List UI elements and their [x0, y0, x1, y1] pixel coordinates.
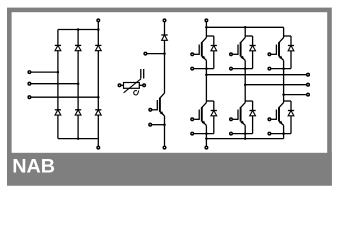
Q3 aux emitter wire — [271, 68, 291, 70]
wire aux emitter — [152, 124, 165, 126]
rectifier top diode D1 — [55, 45, 61, 50]
junction Q5 emitter — [244, 132, 247, 135]
inverter diode D5 — [250, 111, 256, 116]
AC input wire 1 — [31, 71, 58, 73]
IGBT Q3 body bar — [278, 42, 280, 56]
IGBT Q3 gate bar — [275, 45, 277, 55]
inverter diode D6 wire — [290, 101, 292, 134]
thermistor diagonal stroke — [124, 79, 141, 93]
IGBT Q4 gate bar — [198, 110, 200, 120]
IGBT Q1 gate wire — [194, 53, 199, 55]
phase 1 output terminal — [307, 73, 310, 76]
junction brake emitter — [163, 123, 166, 126]
inverter diode D3 — [288, 46, 294, 51]
brake aux emitter terminal — [149, 123, 152, 126]
AC input wire 3 — [31, 96, 99, 98]
inverter diode D1 wire — [213, 36, 215, 69]
brake bottom terminal — [163, 146, 166, 149]
Q1 aux emitter wire — [194, 68, 214, 70]
IGBT Q3 gate wire — [271, 53, 276, 55]
wire Q6 to bottom rail — [283, 134, 285, 139]
Q2 aux emitter wire — [233, 68, 253, 70]
wire rail to Q3 — [283, 27, 285, 37]
brake IGBT gate bar — [156, 100, 158, 110]
phase 2 midpoint wire — [244, 69, 246, 103]
junction phase 1 — [205, 73, 208, 76]
wire Q5 to bottom rail — [244, 134, 246, 139]
wire branch to D6 top — [284, 100, 291, 102]
thermistor sense lead 1 — [140, 69, 142, 79]
junction bottom rail cell5 — [244, 137, 247, 140]
junction bottom rail leg2 — [77, 137, 80, 140]
inverter DC+ terminal — [205, 19, 208, 22]
IGBT Q6 gate wire — [271, 118, 276, 120]
IGBT Q5 gate terminal — [230, 118, 233, 121]
inverter top rail — [206, 26, 283, 28]
inverter diode D2 wire — [252, 36, 254, 69]
wire branch to D3 top — [284, 35, 291, 37]
inverter bottom rail — [206, 138, 283, 140]
IGBT Q1 body bar — [201, 42, 203, 56]
AC input terminal 1 — [28, 71, 31, 74]
rectifier top diode D3 — [95, 45, 101, 50]
footer label NAB — [12, 156, 55, 178]
inverter diode D2 — [250, 46, 256, 51]
Q6 aux emitter terminal — [268, 132, 271, 135]
junction rail cell1 — [205, 26, 208, 29]
Q3 emitter wire — [283, 60, 285, 68]
phase 3 output wire — [284, 94, 307, 96]
thermistor left terminal — [118, 84, 121, 87]
wire DC+ to top rail — [97, 22, 99, 30]
rectifier leg 2 wire — [77, 30, 79, 139]
thermistor theta symbol — [134, 90, 139, 95]
brake top terminal — [163, 19, 166, 22]
IGBT Q3 emitter lead with arrow — [279, 56, 284, 61]
Q5 aux emitter terminal — [230, 132, 233, 135]
wire branch to D2 top — [245, 35, 252, 37]
footer bar — [7, 153, 332, 186]
rectifier DC+ terminal — [97, 19, 100, 22]
Q3 aux emitter terminal — [268, 67, 271, 70]
outer gray frame — [9, 10, 329, 183]
rectifier bottom diode D6 — [95, 110, 101, 115]
IGBT Q6 body bar — [278, 107, 280, 121]
rectifier top rail — [58, 29, 98, 31]
IGBT Q1 gate bar — [198, 45, 200, 55]
thermistor right lead — [139, 84, 142, 86]
IGBT Q5 emitter lead with arrow — [240, 121, 245, 126]
wire aux to brake node — [147, 53, 165, 55]
thermistor sense lead 2 — [143, 69, 145, 79]
IGBT Q5 collector lead — [241, 103, 246, 108]
brake IGBT emitter lead with arrow — [160, 111, 165, 116]
junction rail cell2 — [244, 26, 247, 29]
Q1 emitter wire — [205, 60, 207, 68]
IGBT Q2 collector lead — [241, 38, 246, 43]
rectifier DC- terminal — [97, 146, 100, 149]
brake main wire upper — [164, 22, 166, 93]
Q5 aux emitter wire — [233, 133, 253, 135]
IGBT Q6 gate terminal — [268, 118, 271, 121]
junction AC2 — [77, 82, 80, 85]
inverter diode D4 wire — [213, 101, 215, 134]
AC input wire 2 — [31, 83, 78, 85]
IGBT Q3 gate terminal — [268, 53, 271, 56]
inverter DC- terminal — [205, 146, 208, 149]
IGBT Q5 body bar — [240, 107, 242, 121]
brake IGBT collector lead — [160, 93, 165, 98]
junction Q3 emitter — [282, 67, 285, 70]
brake diode — [161, 35, 167, 40]
wire branch to D1 top — [206, 35, 213, 37]
junction Q1 emitter — [205, 67, 208, 70]
rectifier top diode D2 — [75, 45, 81, 50]
wire branch to D5 top — [245, 100, 252, 102]
junction Q6 emitter — [282, 132, 285, 135]
IGBT Q1 emitter lead with arrow — [202, 56, 207, 61]
wire bottom rail to DC- terminal — [97, 139, 99, 147]
IGBT Q4 collector lead — [202, 103, 207, 108]
junction Q2 emitter — [244, 67, 247, 70]
inverter diode D4 — [211, 111, 217, 116]
AC input terminal 2 — [28, 82, 31, 85]
inverter diode D5 wire — [252, 101, 254, 134]
Q2 aux emitter terminal — [230, 67, 233, 70]
brake IGBT gate terminal — [149, 109, 152, 112]
inverter diode D1 — [211, 46, 217, 51]
Q4 emitter wire — [205, 125, 207, 133]
phase 3 midpoint wire — [283, 69, 285, 103]
brake IGBT body bar — [159, 98, 161, 112]
junction Q4 emitter — [205, 132, 208, 135]
AC input terminal 3 — [28, 96, 31, 99]
junction AC1 — [57, 71, 60, 74]
phase 2 output terminal — [307, 83, 310, 86]
inverter diode D6 — [288, 111, 294, 116]
brake emitter wire — [164, 116, 166, 146]
phase 2 output wire — [245, 84, 306, 86]
brake IGBT gate wire — [152, 109, 157, 111]
wire DC+ drop — [205, 22, 207, 28]
junction phase 3 — [282, 93, 285, 96]
IGBT Q2 gate terminal — [230, 53, 233, 56]
Q6 aux emitter wire — [271, 133, 291, 135]
IGBT Q5 gate wire — [233, 118, 238, 120]
thermistor body — [124, 83, 140, 89]
junction top rail leg3 — [97, 28, 100, 31]
IGBT Q1 collector lead — [202, 38, 207, 43]
IGBT Q4 gate terminal — [191, 118, 194, 121]
rectifier bottom diode D4 — [55, 110, 61, 115]
Q6 emitter wire — [283, 125, 285, 133]
junction bottom rail cell4 — [205, 137, 208, 140]
wire DC- drop — [205, 139, 207, 147]
IGBT Q4 body bar — [201, 107, 203, 121]
Q2 emitter wire — [244, 60, 246, 68]
IGBT Q4 emitter lead with arrow — [202, 121, 207, 126]
IGBT Q2 gate bar — [237, 45, 239, 55]
IGBT Q6 collector lead — [279, 103, 284, 108]
junction AC3 — [97, 96, 100, 99]
wire rail to Q1 — [205, 27, 207, 37]
junction top rail leg2 — [77, 28, 80, 31]
IGBT Q2 emitter lead with arrow — [240, 56, 245, 61]
rectifier leg 1 wire — [57, 30, 59, 139]
wire Q4 to bottom rail — [205, 134, 207, 139]
Q4 aux emitter wire — [194, 133, 214, 135]
IGBT Q6 emitter lead with arrow — [279, 121, 284, 126]
phase 3 output terminal — [307, 93, 310, 96]
IGBT Q4 gate wire — [194, 118, 199, 120]
rectifier bottom diode D5 — [75, 110, 81, 115]
inverter diode D3 wire — [290, 36, 292, 69]
IGBT Q6 gate bar — [275, 110, 277, 120]
brake aux terminal upper — [144, 52, 147, 55]
IGBT Q5 gate bar — [237, 110, 239, 120]
phase 1 midpoint wire — [205, 69, 207, 103]
Q4 aux emitter terminal — [191, 132, 194, 135]
Q5 emitter wire — [244, 125, 246, 133]
junction brake node — [163, 52, 166, 55]
junction phase 2 — [244, 83, 247, 86]
IGBT Q2 body bar — [240, 42, 242, 56]
thermistor right terminal — [143, 84, 146, 87]
thermistor left lead — [121, 84, 124, 86]
rectifier leg 3 wire — [97, 30, 99, 139]
wire rail to Q2 — [244, 27, 246, 37]
IGBT Q2 gate wire — [233, 53, 238, 55]
Q1 aux emitter terminal — [191, 67, 194, 70]
IGBT Q3 collector lead — [279, 38, 284, 43]
IGBT Q1 gate terminal — [191, 53, 194, 56]
rectifier bottom rail — [58, 138, 98, 140]
phase 1 output wire — [206, 74, 306, 76]
svg-text:NAB: NAB — [12, 156, 55, 178]
wire branch to D4 top — [206, 100, 213, 102]
